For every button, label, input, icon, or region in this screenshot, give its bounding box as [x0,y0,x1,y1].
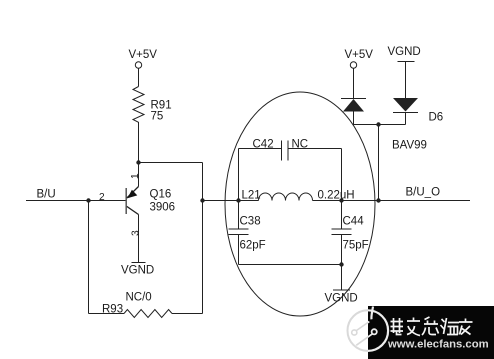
svg-text:3: 3 [130,230,141,236]
svg-text:BAV99: BAV99 [392,140,427,152]
junction output node [376,198,380,202]
svg-text:C44: C44 [343,216,365,228]
wire VGND to diode D6b [405,62,407,99]
wire right vertical (feedback branch) [202,163,204,314]
ground VGND (filter) [333,289,350,291]
wire output line [342,200,471,202]
svg-text:NC: NC [292,139,309,151]
wire R91 to emitter node [138,125,140,163]
wire filter input [203,200,259,202]
highlight ellipse around filter [225,92,375,316]
wire bottom node to ground [341,265,343,291]
svg-text:75: 75 [151,111,164,123]
junction filter right node [339,198,343,202]
watermark elecfans [348,306,494,359]
wire B/U node down to R93 [88,201,90,314]
capacitor C38 [229,201,249,265]
junction diode connector [376,122,380,126]
svg-text:C42: C42 [253,139,274,151]
wire R93 right lead [172,313,203,315]
svg-text:VGND: VGND [388,46,421,58]
resistor R91 [133,87,144,126]
svg-text:NC/0: NC/0 [126,292,152,304]
wire diode D6b to connector [405,113,407,125]
svg-text:75pF: 75pF [343,240,369,252]
resistor R93 [124,310,172,318]
svg-text:D6: D6 [429,112,444,124]
svg-text:L21: L21 [242,190,261,202]
svg-text:V+5V: V+5V [129,49,158,61]
svg-text:1: 1 [130,173,141,179]
wire emitter node to right vertical [139,162,203,164]
wire V+5V to R91 [138,68,140,86]
svg-text:VGND: VGND [121,265,154,277]
svg-text:C38: C38 [240,216,261,228]
inductor L21 [259,193,313,200]
svg-text:www.elecfans.com: www.elecfans.com [387,339,489,351]
wire V+5V to diode D6a [353,68,355,98]
junction filter bottom node [339,262,343,266]
ground VGND bar (top right) [398,61,415,63]
junction emitter node [136,160,140,164]
svg-text:Q16: Q16 [150,189,172,201]
capacitor C44 [332,201,352,265]
wire filter bottom [239,264,342,266]
wire R93 left lead [89,313,125,315]
ground VGND (transistor collector) [132,262,146,264]
svg-text:B/U: B/U [37,189,56,201]
transistor Q16 [126,163,138,263]
wire diode D6a to connector [353,112,355,125]
capacitor C42 [282,141,289,161]
diode D6b (to VGND) [393,98,418,113]
power symbol V+5V (left) [135,62,141,68]
wire top branch left [239,148,282,150]
svg-text:3906: 3906 [150,202,176,214]
junction right vertical / filter input [200,198,204,202]
wire B/U input [26,200,126,202]
svg-text:B/U_O: B/U_O [406,187,441,199]
junction filter left node [236,198,240,202]
wire filter left vertical (top) [238,149,240,201]
svg-text:0.22uH: 0.22uH [318,190,355,202]
svg-text:62pF: 62pF [240,240,266,252]
wire output node up to diodes [378,125,380,201]
wire diode connector [354,124,406,126]
junction B/U node [86,198,90,202]
diode D6a (to V+5V) [341,99,366,112]
svg-text:V+5V: V+5V [345,49,374,61]
svg-text:VGND: VGND [325,293,358,305]
wire L21 to filter right node [313,200,342,202]
svg-text:2: 2 [99,192,105,203]
wire top branch right [288,148,342,150]
wire filter right vertical (top) [341,149,343,201]
power symbol V+5V (right) [350,62,356,68]
